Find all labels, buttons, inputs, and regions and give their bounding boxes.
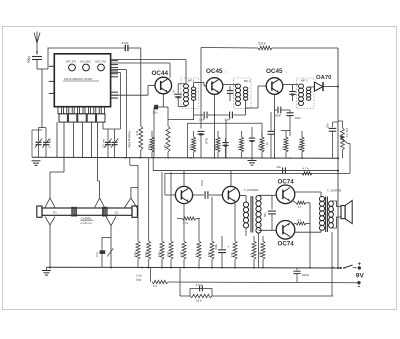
svg-text:S1: S1	[115, 210, 119, 214]
svg-text:5.6 k: 5.6 k	[259, 42, 266, 46]
svg-text:1 kΩ: 1 kΩ	[136, 274, 142, 278]
svg-text:P1: P1	[53, 210, 57, 214]
svg-text:Pot. 5 k: Pot. 5 k	[345, 128, 349, 138]
svg-text:OC74: OC74	[278, 240, 295, 247]
svg-text:T₂ SORTIE: T₂ SORTIE	[327, 188, 341, 192]
svg-text:10 k: 10 k	[157, 251, 161, 257]
svg-text:MF 1: MF 1	[188, 79, 195, 83]
svg-text:47pF: 47pF	[122, 41, 129, 45]
svg-text:OSC PO: OSC PO	[95, 60, 107, 64]
svg-text:CADRE: CADRE	[81, 216, 92, 220]
svg-text:1n: 1n	[265, 142, 269, 145]
svg-text:1.5k: 1.5k	[258, 251, 262, 257]
svg-text:10 n: 10 n	[153, 111, 159, 115]
svg-text:22 k: 22 k	[213, 144, 217, 150]
svg-text:4.7uF: 4.7uF	[196, 283, 203, 287]
svg-text:10nF: 10nF	[199, 118, 205, 122]
svg-text:10 k: 10 k	[133, 251, 137, 257]
svg-text:47 k: 47 k	[147, 144, 151, 150]
svg-text:FLUX DRUCK STAR: FLUX DRUCK STAR	[64, 77, 93, 81]
svg-text:CV osc.: CV osc.	[101, 138, 105, 148]
svg-text:ACC BO: ACC BO	[80, 60, 92, 64]
svg-text:40u: 40u	[277, 165, 282, 169]
svg-text:15 k: 15 k	[196, 299, 202, 303]
svg-text:⌀ 20 cm: ⌀ 20 cm	[81, 221, 93, 225]
svg-text:(log): (log)	[136, 278, 141, 282]
svg-text:5.6k: 5.6k	[207, 251, 211, 257]
svg-text:20n: 20n	[326, 123, 330, 128]
svg-text:ATC PO: ATC PO	[66, 60, 77, 64]
svg-text:0.1u: 0.1u	[95, 251, 99, 257]
svg-text:47 k: 47 k	[144, 251, 148, 257]
svg-text:4.7: 4.7	[297, 218, 301, 222]
svg-text:22 k: 22 k	[166, 251, 170, 257]
svg-text:4.7 k: 4.7 k	[303, 166, 310, 170]
svg-text:OC45: OC45	[266, 68, 283, 75]
svg-text:Padding 500p: Padding 500p	[128, 131, 132, 148]
svg-text:1 k: 1 k	[153, 284, 157, 288]
svg-text:50nF: 50nF	[275, 114, 281, 118]
svg-text:100uF: 100uF	[302, 273, 310, 277]
svg-text:MF 3: MF 3	[301, 79, 308, 83]
svg-text:50nF: 50nF	[225, 118, 231, 122]
svg-text:OA70: OA70	[316, 75, 332, 81]
svg-text:50u: 50u	[263, 212, 267, 217]
svg-text:4.7: 4.7	[298, 205, 302, 209]
svg-text:CV acc: CV acc	[48, 138, 52, 148]
svg-text:50uF: 50uF	[205, 138, 209, 145]
svg-text:1.5k: 1.5k	[163, 144, 167, 150]
svg-text:4.7k: 4.7k	[257, 144, 261, 150]
svg-text:OC44: OC44	[152, 70, 169, 77]
svg-text:2.2k: 2.2k	[179, 251, 183, 257]
svg-text:10 k: 10 k	[189, 144, 193, 150]
svg-text:2.2n: 2.2n	[172, 89, 176, 95]
svg-text:-..: -..	[285, 70, 288, 74]
svg-text:OC74: OC74	[278, 178, 295, 185]
svg-text:500p: 500p	[27, 56, 31, 63]
svg-text:+: +	[228, 245, 230, 249]
svg-text:T₁ DRIVER: T₁ DRIVER	[244, 188, 258, 192]
svg-text:470: 470	[297, 145, 301, 150]
svg-text:4.7k: 4.7k	[135, 130, 139, 136]
svg-text:OC45: OC45	[206, 68, 223, 75]
svg-text:-..: -..	[225, 70, 228, 74]
svg-text:MF 2: MF 2	[244, 79, 251, 83]
svg-text:100u: 100u	[214, 244, 218, 250]
svg-text:9V: 9V	[356, 273, 365, 280]
svg-text:10nF: 10nF	[295, 116, 302, 120]
svg-text:10uF: 10uF	[200, 180, 204, 186]
svg-text:470: 470	[230, 252, 234, 257]
